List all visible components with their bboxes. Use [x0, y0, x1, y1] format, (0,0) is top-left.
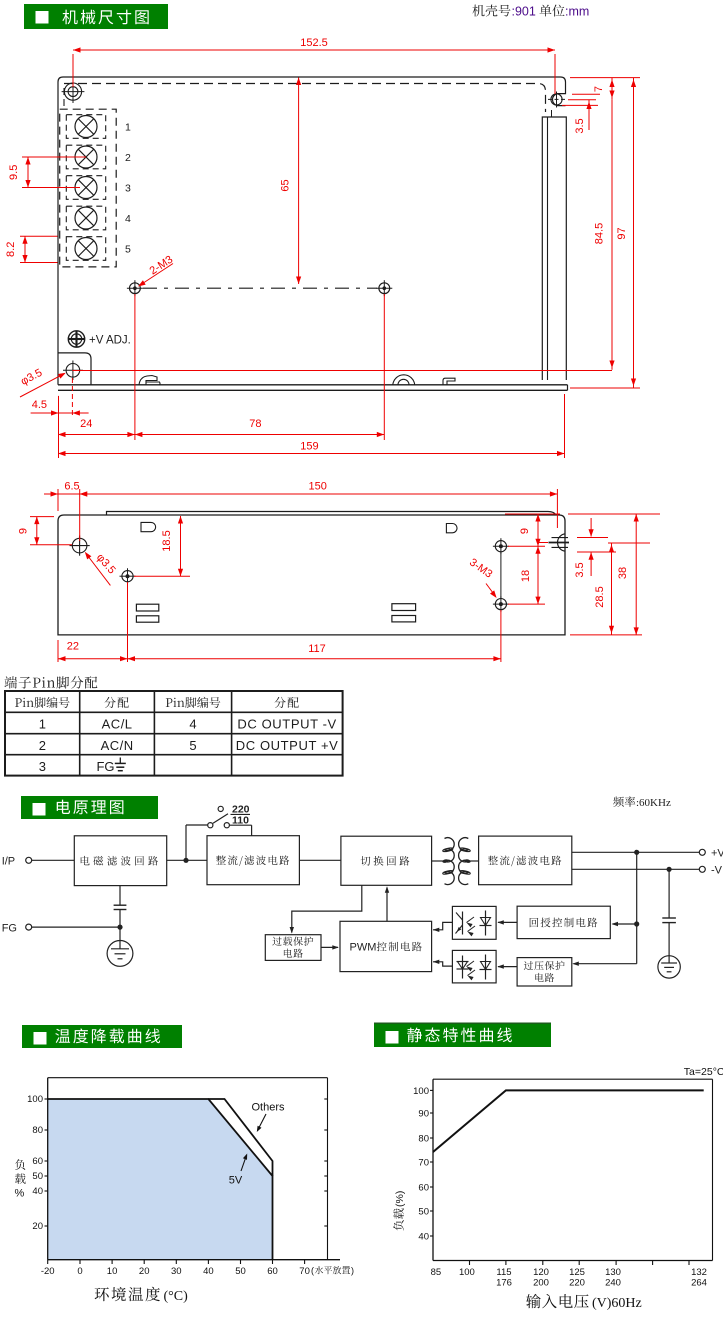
dim 22 — [57, 640, 59, 662]
svg-text:DC OUTPUT -V: DC OUTPUT -V — [237, 717, 336, 732]
table header row — [15, 697, 70, 708]
wire switching to overload protection — [292, 885, 362, 932]
dim 84.5 right — [611, 100, 613, 370]
output terminal +V — [699, 849, 705, 855]
dim 8.2 terminals — [20, 235, 58, 237]
block EMI filter 电磁滤波回路 — [74, 836, 166, 886]
flange dome middle — [393, 375, 415, 385]
terminal block dashed outline — [60, 109, 116, 267]
svg-text:132: 132 — [691, 1267, 707, 1278]
wire I/P to EMI filter — [32, 859, 75, 861]
dim 38 — [568, 513, 660, 515]
x axis title 输入电压(V)60Hz — [526, 1294, 589, 1308]
svg-text:85: 85 — [431, 1267, 442, 1278]
svg-text:38: 38 — [617, 567, 629, 579]
wire optocoupler U1 to PWM — [433, 922, 452, 929]
svg-text:(: ( — [311, 1266, 314, 1276]
svg-text:240: 240 — [605, 1278, 621, 1289]
svg-text:80: 80 — [32, 1125, 43, 1136]
svg-text:50: 50 — [418, 1207, 429, 1218]
M3 holes right pair 3-M3 — [495, 541, 506, 552]
dim 18.5 — [134, 575, 190, 577]
derating chart filled area — [48, 1099, 273, 1259]
y axis label 负载% stacked — [15, 1159, 25, 1170]
Y-capacitor C1 — [119, 886, 121, 906]
voltage selector switch 220/110 — [208, 823, 213, 828]
svg-text:1: 1 — [39, 717, 46, 732]
vent slot top-left — [141, 522, 156, 531]
static characteristics curve — [433, 1090, 704, 1152]
flange hook right — [443, 378, 455, 385]
svg-text:(V)60Hz: (V)60Hz — [592, 1296, 642, 1311]
terminal 2 — [66, 145, 105, 169]
svg-text:2: 2 — [125, 152, 131, 164]
right side cover bar — [542, 117, 566, 380]
earth ground symbol input — [119, 927, 121, 940]
wire OVP to optocoupler U2 — [498, 966, 517, 968]
svg-text:6.5: 6.5 — [64, 481, 79, 493]
dim 4.5 — [58, 396, 60, 458]
svg-text:28.5: 28.5 — [594, 586, 606, 607]
wire feedback to optocoupler U1 — [498, 921, 517, 923]
svg-text:130: 130 — [605, 1267, 621, 1278]
M3 hole left — [122, 571, 133, 582]
svg-text:2: 2 — [39, 738, 46, 753]
svg-text:Others: Others — [251, 1102, 285, 1114]
svg-text:20: 20 — [139, 1266, 150, 1277]
svg-text:117: 117 — [308, 643, 326, 655]
block switching circuit 切换回路 — [341, 836, 432, 885]
block feedback control 回授控制电路 — [517, 906, 610, 938]
pin assignment table — [5, 691, 343, 776]
svg-text:(%): (%) — [394, 1191, 406, 1207]
optocoupler U2 — [452, 950, 496, 983]
wire down to OVP block — [574, 963, 637, 965]
svg-text::60KHz: :60KHz — [636, 797, 671, 809]
y axis label 负载(%) rotated — [393, 1191, 406, 1231]
svg-text:%: % — [15, 1188, 25, 1200]
svg-text:97: 97 — [616, 227, 628, 239]
static chart axes frame — [432, 1079, 434, 1260]
svg-text:FG: FG — [96, 759, 114, 774]
derating chart axes frame — [47, 1078, 49, 1260]
optocoupler U1 — [452, 906, 496, 939]
earth ground symbol output — [668, 923, 670, 956]
svg-text:18.5: 18.5 — [161, 530, 173, 551]
terminal 5 — [66, 237, 105, 261]
svg-text:20: 20 — [32, 1221, 43, 1232]
wire junction to feedback control — [613, 923, 637, 925]
svg-text:100: 100 — [413, 1086, 429, 1097]
svg-text:FG: FG — [2, 922, 17, 934]
case bottom view outline — [58, 515, 565, 635]
svg-text:3: 3 — [39, 759, 46, 774]
phi3.5 screw front — [66, 364, 80, 378]
dim 9.5 terminals — [22, 156, 86, 158]
dim 7 right — [570, 77, 640, 79]
wire -V output — [572, 868, 700, 870]
svg-text:60: 60 — [32, 1156, 43, 1167]
cover seam line — [107, 512, 557, 516]
svg-text:3.5: 3.5 — [574, 562, 586, 577]
dim 65 vertical — [298, 78, 300, 285]
derating curve 5V line — [48, 1099, 273, 1259]
svg-text:0: 0 — [77, 1266, 82, 1277]
case front view outline — [58, 77, 566, 385]
side vents right — [392, 604, 416, 611]
bottom chassis plate — [58, 384, 568, 386]
block over-voltage protection 过压保护电路 — [517, 958, 572, 986]
svg-text:150: 150 — [309, 481, 327, 493]
wire optocoupler U2 to PWM — [433, 962, 452, 966]
dim 6.5 — [57, 489, 59, 511]
dim 78 — [383, 294, 385, 440]
dim 28.5 — [608, 542, 650, 544]
svg-text:125: 125 — [569, 1267, 585, 1278]
svg-text:80: 80 — [418, 1134, 429, 1145]
terminal 4 — [66, 206, 105, 230]
svg-text:): ) — [351, 1266, 354, 1276]
section header: schematic title — [21, 796, 158, 819]
dim 97 right — [570, 387, 640, 389]
output capacitor C2 — [668, 869, 670, 918]
wire rectifier to switching — [299, 859, 341, 861]
svg-text::mm: :mm — [565, 5, 589, 19]
wire EMI to rectifier with junction — [167, 859, 207, 861]
svg-text:5: 5 — [189, 738, 196, 753]
block overload protection 过载保护电路 — [265, 935, 321, 961]
block output rectifier 整流/滤波电路 — [479, 836, 572, 885]
svg-text:7: 7 — [593, 86, 605, 92]
feedback sense wire from +V rail — [636, 852, 638, 963]
top right label 机壳号:901 单位:mm — [473, 5, 511, 17]
svg-text:120: 120 — [533, 1267, 549, 1278]
dim 150 — [556, 489, 558, 528]
svg-text:9: 9 — [18, 528, 30, 534]
svg-text:200: 200 — [533, 1278, 549, 1289]
svg-text:-V: -V — [711, 864, 723, 876]
svg-text:70: 70 — [418, 1158, 429, 1169]
static x tick labels — [469, 1261, 471, 1266]
svg-text:159: 159 — [300, 441, 318, 453]
svg-text:18: 18 — [520, 570, 532, 582]
svg-text:110: 110 — [232, 815, 249, 827]
section header: mechanical dimension title — [24, 4, 168, 29]
svg-text:30: 30 — [171, 1266, 182, 1277]
svg-text:+V ADJ.: +V ADJ. — [89, 335, 131, 347]
M3 mounting holes 2-M3 with dashed centerline — [130, 283, 141, 294]
x axis title 环境温度 — [95, 1287, 160, 1302]
svg-text:PWM: PWM — [350, 942, 377, 954]
svg-text:176: 176 — [496, 1278, 512, 1289]
dim 152.5 top — [72, 54, 74, 87]
derating curve Others line — [208, 1099, 272, 1176]
svg-text:50: 50 — [235, 1266, 246, 1277]
svg-text:4: 4 — [125, 213, 131, 225]
svg-text::901: :901 — [512, 5, 536, 19]
svg-text:+V: +V — [711, 847, 723, 859]
dim 9 left — [30, 516, 54, 518]
label frequency 60KHz — [613, 796, 635, 807]
svg-text:60: 60 — [418, 1183, 429, 1194]
dim 3.5 right — [572, 93, 600, 95]
svg-text:84.5: 84.5 — [594, 223, 606, 244]
side vents left — [136, 604, 158, 611]
transformer T1 — [445, 838, 455, 885]
svg-text:5V: 5V — [229, 1175, 243, 1187]
phi3.5 screw bottom view — [72, 538, 87, 553]
corner screw top-left — [64, 83, 81, 100]
block input rectifier 整流/滤波电路 — [207, 836, 299, 885]
svg-text:100: 100 — [27, 1094, 43, 1105]
section header: derating curve title — [22, 1025, 182, 1048]
bottom-left mounting bracket — [58, 353, 91, 385]
svg-text:5: 5 — [125, 243, 131, 255]
svg-text:78: 78 — [249, 418, 261, 430]
case inner dashed outline — [64, 84, 546, 113]
wire junction up to voltage selector switch — [185, 825, 187, 860]
right notch screw bottom view — [558, 534, 565, 551]
svg-text:22: 22 — [67, 641, 79, 653]
svg-text:10: 10 — [107, 1266, 118, 1277]
wire +V output — [572, 851, 700, 853]
svg-text:(°C): (°C) — [164, 1289, 189, 1304]
section header: static curve title — [374, 1023, 551, 1026]
svg-text:4: 4 — [189, 717, 196, 732]
terminal 1 — [66, 115, 105, 139]
svg-text:24: 24 — [80, 418, 92, 430]
svg-text:I/P: I/P — [2, 855, 15, 867]
output terminal -V — [699, 866, 705, 872]
svg-text:3: 3 — [125, 182, 131, 194]
svg-text:1: 1 — [125, 121, 131, 133]
wire overload to PWM — [321, 946, 338, 948]
svg-text:AC/L: AC/L — [102, 717, 133, 732]
svg-text:4.5: 4.5 — [32, 399, 47, 411]
svg-text:40: 40 — [32, 1186, 43, 1197]
flange clip left — [139, 376, 160, 385]
svg-text:264: 264 — [691, 1278, 707, 1289]
svg-text:100: 100 — [459, 1267, 475, 1278]
block PWM control PWM控制电路 — [340, 921, 432, 971]
svg-text:50: 50 — [32, 1171, 43, 1182]
svg-text:DC OUTPUT +V: DC OUTPUT +V — [236, 738, 339, 753]
dim 3.5 bottom right — [538, 542, 548, 544]
svg-text:-20: -20 — [41, 1266, 55, 1277]
vent slot top-right — [446, 524, 457, 533]
pin table title — [4, 676, 97, 689]
svg-text:60: 60 — [267, 1266, 278, 1277]
wire switching to transformer — [432, 860, 445, 862]
svg-text:9: 9 — [519, 528, 531, 534]
svg-text:220: 220 — [569, 1278, 585, 1289]
dim 117 — [500, 610, 502, 662]
svg-text:115: 115 — [496, 1267, 511, 1278]
right notch screw — [551, 94, 562, 105]
dim 18 right — [508, 545, 545, 547]
potentiometer +V ADJ — [68, 331, 84, 347]
svg-text:90: 90 — [418, 1109, 429, 1120]
svg-text:9.5: 9.5 — [8, 165, 20, 180]
svg-text:40: 40 — [203, 1266, 214, 1277]
svg-text:152.5: 152.5 — [300, 37, 328, 49]
dim 24 — [134, 294, 136, 440]
wire FG to ground junction — [32, 926, 120, 928]
svg-text:AC/N: AC/N — [101, 738, 134, 753]
terminal 3 — [66, 176, 105, 200]
svg-text:8.2: 8.2 — [5, 242, 17, 257]
svg-text:65: 65 — [280, 179, 292, 191]
svg-text:70: 70 — [299, 1266, 310, 1277]
wire PWM to switching — [386, 888, 388, 922]
svg-text:3.5: 3.5 — [574, 118, 586, 133]
dim 9 right — [505, 513, 560, 515]
wire transformer to output rectifier — [468, 860, 479, 862]
svg-text:Ta=25°C: Ta=25°C — [684, 1066, 723, 1078]
dim 159 — [564, 394, 566, 458]
svg-text:40: 40 — [418, 1232, 429, 1243]
derating x tick labels — [47, 1260, 49, 1264]
